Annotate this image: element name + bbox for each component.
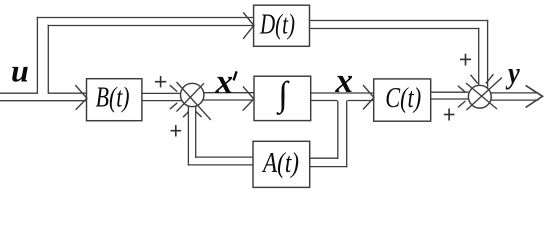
svg-text:B(t): B(t) [96, 83, 130, 114]
svg-text:A(t): A(t) [261, 148, 299, 179]
svg-text:x: x [215, 62, 234, 101]
svg-text:y: y [505, 56, 520, 90]
svg-text:u: u [11, 53, 29, 89]
svg-text:C(t): C(t) [385, 83, 421, 114]
svg-text:x: x [335, 61, 354, 100]
svg-text:D(t): D(t) [259, 10, 295, 41]
